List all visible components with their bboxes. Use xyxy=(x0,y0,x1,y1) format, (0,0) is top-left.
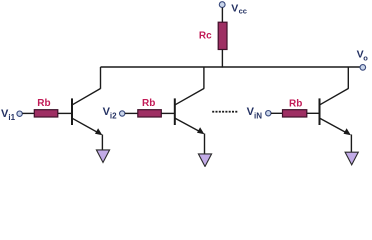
wire collector bus xyxy=(101,66,361,68)
svg-text:i2: i2 xyxy=(110,111,117,120)
wire Rb to Q1 base xyxy=(58,112,72,114)
wire Vcc lead xyxy=(221,8,223,24)
node Vi1 terminal xyxy=(17,111,22,116)
transistor Q2 xyxy=(175,67,205,134)
svg-text:iN: iN xyxy=(254,111,262,120)
svg-text:Rb: Rb xyxy=(289,99,302,110)
node Vo terminal xyxy=(360,65,366,71)
resistor Rb (input 2) xyxy=(138,110,162,117)
svg-text:cc: cc xyxy=(239,7,247,16)
dots: additional inputs xyxy=(212,111,237,113)
node Vcc terminal xyxy=(219,2,225,8)
svg-text:Rc: Rc xyxy=(199,30,212,41)
resistor Rb (input 1) xyxy=(34,110,58,117)
svg-text:V: V xyxy=(231,3,238,15)
node Vi2 terminal xyxy=(120,111,125,116)
svg-text:Rb: Rb xyxy=(142,98,155,109)
svg-text:o: o xyxy=(363,54,368,63)
wire Vi1 to Rb xyxy=(22,112,35,114)
wire Vi2 to Rb xyxy=(125,112,138,114)
node ViN terminal xyxy=(266,111,271,116)
transistor Q3 xyxy=(320,67,351,135)
wire Rb to Q2 base xyxy=(161,112,174,114)
ground (Q3) xyxy=(345,152,358,165)
ground (Q1) xyxy=(96,150,109,163)
resistor Rc xyxy=(218,22,227,49)
wire Q1 emitter to ground xyxy=(101,135,103,151)
wire Rc to bus xyxy=(221,50,223,68)
wire Rb to Q3 base xyxy=(307,112,319,114)
wire Q3 emitter to ground xyxy=(350,135,352,153)
svg-text:i1: i1 xyxy=(8,113,15,122)
resistor Rb (input N) xyxy=(283,110,307,117)
transistor Q1 xyxy=(72,67,102,135)
ground (Q2) xyxy=(198,154,211,167)
wire Q2 emitter to ground xyxy=(204,134,206,155)
wire ViN to Rb xyxy=(271,112,283,114)
svg-text:Rb: Rb xyxy=(37,98,50,109)
